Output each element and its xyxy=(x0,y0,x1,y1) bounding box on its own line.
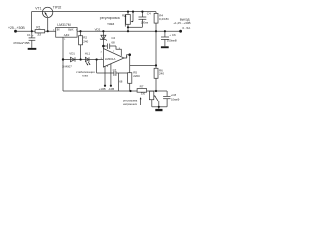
svg-text:VT1: VT1 xyxy=(35,6,41,10)
svg-text:68: 68 xyxy=(111,40,115,44)
svg-text:ВХ: ВХ xyxy=(57,29,60,32)
svg-text:4700мк*35В: 4700мк*35В xyxy=(13,41,30,45)
svg-text:+10В: +10В xyxy=(99,87,106,91)
svg-text:R3: R3 xyxy=(122,13,126,17)
svg-text:220К: 220К xyxy=(133,74,140,78)
svg-text:тока: тока xyxy=(107,22,114,26)
svg-text:напряжения: напряжения xyxy=(123,103,138,106)
svg-text:С7: С7 xyxy=(113,68,117,72)
svg-text:2: 2 xyxy=(101,51,103,53)
svg-text:VD1: VD1 xyxy=(69,52,75,56)
svg-text:С6: С6 xyxy=(172,33,176,37)
svg-text:ВЫХ: ВЫХ xyxy=(68,29,74,32)
svg-text:R7: R7 xyxy=(140,84,144,88)
svg-text:+25...+30В: +25...+30В xyxy=(8,26,25,30)
svg-text:1N4007: 1N4007 xyxy=(62,64,72,68)
svg-text:регулировка: регулировка xyxy=(100,16,120,20)
svg-text:LM317М: LM317М xyxy=(57,23,70,27)
svg-text:+1,25...+30В: +1,25...+30В xyxy=(173,21,190,25)
svg-text:тока: тока xyxy=(82,73,88,77)
svg-text:C1: C1 xyxy=(27,33,31,37)
svg-text:7: 7 xyxy=(113,51,115,53)
svg-text:0,2/1Вт: 0,2/1Вт xyxy=(159,17,170,21)
svg-text:240: 240 xyxy=(159,72,164,76)
svg-text:0...5А: 0...5А xyxy=(182,26,190,30)
svg-text:1: 1 xyxy=(64,39,66,41)
svg-text:TIP32: TIP32 xyxy=(53,5,62,9)
svg-text:10мкФ: 10мкФ xyxy=(171,97,179,101)
svg-text:33: 33 xyxy=(37,33,41,37)
svg-text:330: 330 xyxy=(141,92,146,96)
svg-text:-10В: -10В xyxy=(108,87,114,91)
svg-text:240: 240 xyxy=(83,39,88,43)
svg-text:HL1: HL1 xyxy=(85,52,91,56)
svg-text:6: 6 xyxy=(126,57,128,59)
svg-text:АДЖ: АДЖ xyxy=(64,34,70,37)
svg-text:LM301А: LM301А xyxy=(105,57,116,61)
svg-text:VD2: VD2 xyxy=(95,28,101,32)
svg-text:100мкФ: 100мкФ xyxy=(167,39,177,43)
svg-text:+: + xyxy=(32,34,34,38)
svg-text:R1: R1 xyxy=(36,25,40,29)
svg-text:4: 4 xyxy=(107,66,109,68)
svg-text:68: 68 xyxy=(119,80,123,84)
svg-text:100мк: 100мк xyxy=(141,20,149,24)
svg-text:С4: С4 xyxy=(147,11,151,15)
